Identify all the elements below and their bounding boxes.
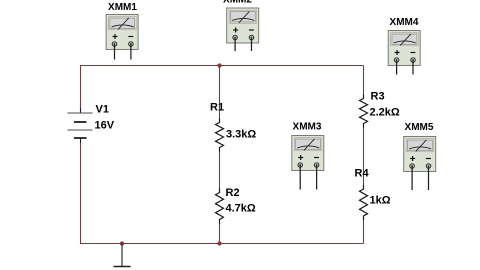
svg-text:4.7kΩ: 4.7kΩ bbox=[226, 203, 256, 215]
svg-text:XMM4: XMM4 bbox=[390, 17, 419, 28]
wire right branch lower (R4 to bottom wire) bbox=[363, 220, 365, 244]
node junction dot bottom middle bbox=[218, 242, 222, 246]
svg-text:V1: V1 bbox=[96, 104, 109, 116]
wire middle branch between R1 and R2 bbox=[219, 151, 221, 189]
multimeter XMM2 bbox=[227, 8, 259, 43]
wire middle branch lower (R2 to bottom wire) bbox=[219, 223, 221, 244]
svg-text:XMM2: XMM2 bbox=[223, 0, 252, 6]
svg-text:2.2kΩ: 2.2kΩ bbox=[370, 107, 400, 119]
svg-text:XMM5: XMM5 bbox=[405, 122, 434, 133]
wire XMM2 - lead bbox=[251, 38, 253, 52]
multimeter XMM1 bbox=[106, 15, 138, 50]
ground bbox=[114, 244, 131, 267]
wire left vertical lower (battery - to bottom wire) bbox=[80, 141, 82, 244]
svg-text:XMM1: XMM1 bbox=[108, 2, 137, 13]
multimeter XMM5 bbox=[404, 137, 436, 172]
wire XMM3 - lead bbox=[316, 165, 318, 190]
svg-text:3.3kΩ: 3.3kΩ bbox=[226, 129, 256, 141]
wire middle branch upper (top wire to R1) bbox=[219, 66, 221, 120]
wire XMM1 - lead bbox=[130, 44, 132, 60]
wire left vertical upper (top wire to battery +) bbox=[80, 66, 82, 111]
wire XMM1 + lead bbox=[114, 44, 116, 60]
svg-text:1kΩ: 1kΩ bbox=[370, 195, 391, 207]
svg-text:R3: R3 bbox=[371, 91, 385, 103]
svg-text:R4: R4 bbox=[355, 168, 370, 180]
resistor R3 bbox=[360, 95, 368, 128]
multimeter XMM3 bbox=[292, 136, 324, 171]
node junction dot ground tap bbox=[120, 242, 124, 246]
svg-text:R1: R1 bbox=[210, 102, 224, 114]
battery V1 symbol bbox=[68, 108, 93, 143]
node junction dot top middle bbox=[218, 64, 222, 68]
wire right branch upper (top wire to R3) bbox=[363, 66, 365, 96]
wire XMM4 - lead bbox=[412, 60, 414, 75]
wire XMM5 + lead bbox=[411, 166, 413, 190]
resistor R2 bbox=[216, 189, 224, 224]
multimeter XMM4 bbox=[388, 31, 420, 66]
wire XMM3 + lead bbox=[299, 165, 301, 190]
wire XMM5 - lead bbox=[428, 166, 430, 190]
wire XMM4 + lead bbox=[396, 60, 398, 75]
resistor R1 bbox=[216, 119, 224, 152]
wire top horizontal net bbox=[80, 65, 364, 67]
wire right branch between R3 and R4 bbox=[363, 127, 365, 186]
resistor R4 bbox=[360, 185, 368, 220]
svg-text:R2: R2 bbox=[226, 187, 240, 199]
wire XMM2 + lead bbox=[234, 38, 236, 52]
svg-text:16V: 16V bbox=[95, 119, 115, 131]
wire bottom horizontal net bbox=[80, 243, 364, 245]
svg-text:XMM3: XMM3 bbox=[293, 122, 322, 133]
